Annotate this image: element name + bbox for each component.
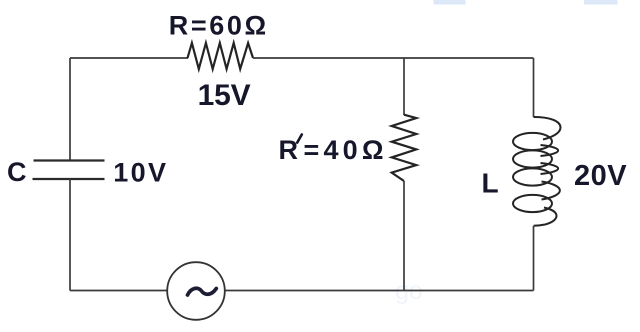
capacitor C plates [33,161,105,180]
svg-text:15V: 15V [198,79,251,112]
wire: right rail upper [533,58,535,117]
wire: bottom rail left segment [70,290,168,292]
wire: top rail left segment [70,57,188,59]
wire: left rail lower [69,179,71,291]
AC source V1 [167,262,225,320]
inductor L coil [513,117,561,226]
resistor R2 R'=40ohm vertical zigzag [392,115,417,181]
wire: bottom rail right segment [225,290,534,292]
wire: middle branch upper [403,58,405,115]
wire: middle branch lower [403,181,405,291]
watermark: blue artifact top edge 1 [434,0,466,5]
wire: right rail lower [533,226,535,291]
resistor R1 R=60ohm zigzag [188,43,254,69]
wire: left rail upper [69,58,71,161]
svg-text:20V: 20V [574,160,627,192]
svg-text:C: C [7,157,27,187]
watermark: blue artifact top edge 2 [584,0,618,5]
svg-text:L: L [482,167,499,198]
svg-text:R: R [279,135,299,165]
wire: top rail right segment [253,57,534,59]
svg-text:=40Ω: =40Ω [304,135,388,165]
svg-text:10V: 10V [113,157,168,187]
svg-text:R=60Ω: R=60Ω [169,11,269,41]
